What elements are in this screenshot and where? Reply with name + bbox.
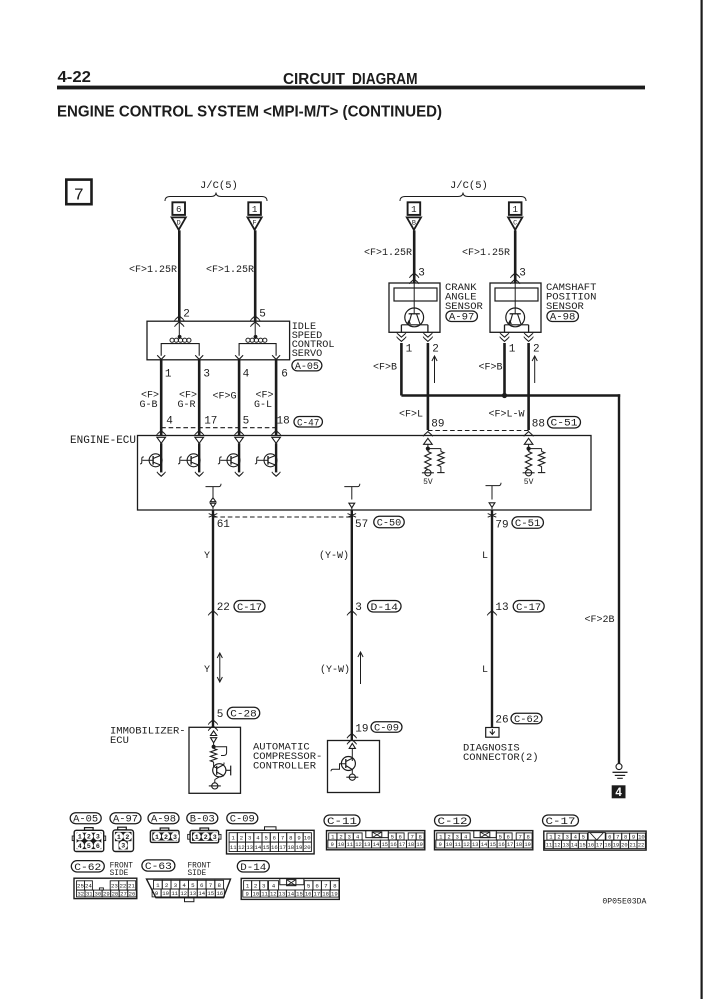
ECU output symbol pin 61 xyxy=(206,484,222,487)
svg-text:6: 6 xyxy=(608,834,611,841)
svg-text:22: 22 xyxy=(119,883,126,890)
compressor ground symbol xyxy=(349,774,355,780)
compressor input terminal xyxy=(349,743,355,748)
svg-text:5: 5 xyxy=(191,882,195,889)
svg-text:18: 18 xyxy=(287,844,294,851)
svg-text:9: 9 xyxy=(297,835,300,842)
svg-text:A-97: A-97 xyxy=(449,313,475,324)
svg-text:89: 89 xyxy=(431,419,444,431)
svg-text:C-28: C-28 xyxy=(230,710,257,721)
svg-text:A-98: A-98 xyxy=(550,313,576,324)
svg-text:5: 5 xyxy=(499,834,502,841)
svg-text:19: 19 xyxy=(416,842,422,848)
connector view A-05 xyxy=(74,830,104,851)
svg-text:2: 2 xyxy=(432,344,439,356)
ECU output symbol pin 57 xyxy=(344,484,360,487)
svg-text:(Y-W): (Y-W) xyxy=(320,664,350,676)
svg-text:4: 4 xyxy=(166,416,173,428)
svg-text:14: 14 xyxy=(571,842,577,848)
connector view C-62 xyxy=(74,878,137,898)
svg-text:C-63: C-63 xyxy=(145,862,172,873)
svg-text:1: 1 xyxy=(439,834,443,841)
svg-text:9: 9 xyxy=(245,891,248,898)
wire (F)G servo pin4 to ECU pin5 xyxy=(238,360,241,436)
svg-text:10: 10 xyxy=(304,835,311,842)
svg-text:2: 2 xyxy=(204,834,208,841)
connector oval C-50 xyxy=(374,516,405,528)
svg-text:CONNECTOR(2): CONNECTOR(2) xyxy=(463,752,539,764)
signal direction arrow up camshaft pin2 xyxy=(534,356,536,383)
svg-text:13: 13 xyxy=(189,890,196,897)
svg-text:25: 25 xyxy=(77,883,84,890)
svg-text:SIDE: SIDE xyxy=(110,870,129,878)
svg-text:15: 15 xyxy=(579,842,585,848)
connector oval A-98 xyxy=(547,311,579,322)
svg-text:32: 32 xyxy=(77,891,84,898)
svg-text:2: 2 xyxy=(557,834,560,841)
svg-text:17: 17 xyxy=(314,891,321,898)
ECU input terminal triangle at x=239.1 xyxy=(235,437,244,443)
svg-text:5: 5 xyxy=(264,835,267,842)
svg-text:3: 3 xyxy=(519,268,526,280)
svg-text:19: 19 xyxy=(296,844,303,851)
connector pin box 1 of J/C(5) B xyxy=(408,202,421,215)
svg-text:A-05: A-05 xyxy=(73,815,98,826)
connector oval label A-97 bottom xyxy=(110,813,141,824)
svg-text:15: 15 xyxy=(263,844,270,851)
double arrow beside Y wire xyxy=(219,653,221,682)
svg-text:<F>1.25R: <F>1.25R xyxy=(364,248,412,259)
svg-text:12: 12 xyxy=(270,891,277,898)
wire Y ECU pin61 to immobilizer xyxy=(212,510,214,727)
svg-text:9: 9 xyxy=(632,834,635,841)
connector oval A-05 xyxy=(292,360,322,371)
signal direction arrow up crank pin2 xyxy=(434,356,436,383)
svg-text:79: 79 xyxy=(495,520,508,532)
svg-text:5: 5 xyxy=(87,843,91,850)
svg-text:26: 26 xyxy=(129,891,136,898)
wire (F)1.25R from J/C C to camshaft sensor pin 3 xyxy=(514,230,517,283)
junction node on ground bus xyxy=(502,393,507,398)
svg-text:14: 14 xyxy=(481,842,487,848)
svg-text:B: B xyxy=(412,220,416,228)
svg-text:4: 4 xyxy=(356,834,360,841)
svg-text:19: 19 xyxy=(331,891,338,898)
svg-text:L: L xyxy=(482,551,488,562)
connector oval label C-17 bottom xyxy=(543,815,579,826)
svg-text:9: 9 xyxy=(439,842,442,848)
svg-text:30: 30 xyxy=(94,891,101,898)
svg-text:D: D xyxy=(177,220,181,228)
svg-text:<F>L-W: <F>L-W xyxy=(489,410,525,421)
svg-text:15: 15 xyxy=(207,890,214,897)
svg-text:31: 31 xyxy=(86,891,93,898)
svg-text:A-97: A-97 xyxy=(113,815,138,826)
svg-text:3: 3 xyxy=(456,834,459,841)
svg-text:11: 11 xyxy=(230,844,237,851)
svg-text:2: 2 xyxy=(164,834,168,841)
svg-text:18: 18 xyxy=(322,891,329,898)
svg-text:7: 7 xyxy=(324,882,328,889)
svg-text:19: 19 xyxy=(613,842,619,848)
junction connector triangle D xyxy=(172,217,186,229)
svg-text:G-L: G-L xyxy=(254,400,272,411)
svg-text:2: 2 xyxy=(87,834,91,841)
svg-text:1: 1 xyxy=(411,204,417,215)
svg-text:3: 3 xyxy=(355,602,362,614)
svg-text:12: 12 xyxy=(238,844,245,851)
svg-text:J/C(5): J/C(5) xyxy=(450,180,488,192)
svg-text:9: 9 xyxy=(155,890,158,897)
immobilizer junction node xyxy=(212,745,216,749)
svg-text:C-17: C-17 xyxy=(516,603,541,614)
svg-text:21: 21 xyxy=(630,842,636,848)
svg-text:4: 4 xyxy=(272,882,276,889)
svg-text:<F>1.25R: <F>1.25R xyxy=(206,265,254,276)
brace right J/C xyxy=(400,193,526,202)
svg-text:11: 11 xyxy=(171,890,178,897)
svg-text:4: 4 xyxy=(78,843,82,850)
svg-text:Y: Y xyxy=(204,665,210,676)
wire (F)1.25R from J/C B to crank sensor pin 3 xyxy=(413,230,416,283)
svg-text:1: 1 xyxy=(509,344,516,356)
svg-text:A-05: A-05 xyxy=(295,362,319,373)
svg-text:27: 27 xyxy=(120,891,127,898)
svg-text:A-98: A-98 xyxy=(151,815,176,826)
brace left J/C xyxy=(165,193,267,202)
svg-text:3: 3 xyxy=(96,834,100,841)
svg-text:4: 4 xyxy=(182,882,186,889)
svg-text:14: 14 xyxy=(287,891,294,898)
wire L ECU pin79 to diagnosis connector xyxy=(491,510,493,728)
connector oval label C-62 bottom xyxy=(71,861,104,872)
immobilizer ground symbol xyxy=(212,783,218,789)
svg-text:17: 17 xyxy=(596,842,602,848)
svg-text:<F>B: <F>B xyxy=(479,363,503,374)
svg-text:Y: Y xyxy=(204,551,210,562)
svg-text:C-50: C-50 xyxy=(377,519,402,530)
svg-text:11: 11 xyxy=(546,842,552,848)
camshaft position sensor internals xyxy=(495,288,538,301)
page edge line xyxy=(701,0,703,999)
svg-text:3: 3 xyxy=(121,843,125,850)
ECU input terminal triangle at x=276.1 xyxy=(272,437,281,443)
connector oval C-51 top xyxy=(548,416,581,428)
svg-text:11: 11 xyxy=(347,842,353,848)
svg-text:17: 17 xyxy=(204,416,217,428)
svg-text:1: 1 xyxy=(117,834,121,841)
connector oval label C-11 bottom xyxy=(324,815,360,826)
ECU input terminal triangle at x=199.2 xyxy=(195,437,204,443)
diagram section number box 7 xyxy=(66,180,91,205)
connector oval label B-03 bottom xyxy=(187,813,218,824)
crank sensor pin 2 xyxy=(424,334,431,337)
svg-text:10: 10 xyxy=(338,842,344,848)
svg-text:13: 13 xyxy=(364,842,370,848)
svg-text:D-14: D-14 xyxy=(371,603,399,614)
svg-text:18: 18 xyxy=(604,842,610,848)
ground bus horizontal wire xyxy=(401,394,620,397)
compressor controller box xyxy=(328,741,380,793)
immobilizer ECU box xyxy=(189,727,241,793)
svg-text:3: 3 xyxy=(262,882,266,889)
ground reference black box 4 xyxy=(612,785,626,798)
svg-text:18: 18 xyxy=(516,842,522,848)
connector view D-14 xyxy=(241,878,339,899)
ECU pull-up network pin 88 xyxy=(524,438,533,444)
svg-text:61: 61 xyxy=(217,519,231,531)
svg-text:23: 23 xyxy=(111,883,118,890)
svg-text:C-09: C-09 xyxy=(374,724,399,735)
svg-text:7: 7 xyxy=(616,834,619,841)
svg-text:(Y-W): (Y-W) xyxy=(319,550,349,562)
svg-text:6: 6 xyxy=(96,843,100,850)
engine ECU box xyxy=(138,436,592,511)
ground bus wire (F)B crank pin1 down xyxy=(400,343,403,396)
ECU pull-up network pin 89 xyxy=(424,438,433,444)
connector oval label A-98 bottom xyxy=(148,813,179,824)
svg-text:26: 26 xyxy=(495,715,508,727)
connector view C-63 xyxy=(147,879,231,898)
connector view C-11 xyxy=(327,831,425,850)
connector oval label D-14 bottom xyxy=(237,861,269,872)
svg-text:6: 6 xyxy=(315,882,319,889)
svg-text:5: 5 xyxy=(259,309,266,321)
svg-text:14: 14 xyxy=(255,844,262,851)
svg-text:<F>1.25R: <F>1.25R xyxy=(129,265,177,276)
C-11 keyway hatched box xyxy=(366,831,389,838)
svg-text:6: 6 xyxy=(398,834,401,841)
svg-text:16: 16 xyxy=(216,890,223,897)
svg-text:22: 22 xyxy=(638,842,644,848)
svg-text:2: 2 xyxy=(240,835,243,842)
svg-text:18: 18 xyxy=(408,842,414,848)
svg-text:19: 19 xyxy=(355,724,368,736)
compressor transistor base lead xyxy=(331,764,346,772)
svg-text:D-14: D-14 xyxy=(240,863,266,874)
svg-text:14: 14 xyxy=(198,890,205,897)
svg-text:16: 16 xyxy=(390,842,396,848)
svg-text:C: C xyxy=(513,220,517,228)
ECU driver transistor at x=276.1 xyxy=(275,443,277,472)
dashed connector line C-50 xyxy=(213,516,352,518)
connector view A-98 xyxy=(150,831,179,843)
svg-text:2: 2 xyxy=(165,882,169,889)
ground symbol (F)2B xyxy=(616,764,622,770)
svg-text:19: 19 xyxy=(524,842,530,848)
svg-text:ECU: ECU xyxy=(110,735,129,747)
svg-text:8: 8 xyxy=(289,835,292,842)
svg-text:15: 15 xyxy=(381,842,387,848)
svg-text:12: 12 xyxy=(355,842,361,848)
dashed connector line C-47 xyxy=(161,427,277,429)
svg-text:CIRCUIT: CIRCUIT xyxy=(283,71,346,88)
camshaft position sensor box A-98 xyxy=(490,283,541,332)
wire (F)L crank pin2 to ECU pin 89 xyxy=(427,343,430,430)
svg-text:CONTROLLER: CONTROLLER xyxy=(253,761,317,773)
C-17 keyway xyxy=(588,833,605,841)
svg-text:4: 4 xyxy=(615,787,622,799)
svg-text:20: 20 xyxy=(621,842,627,848)
svg-text:1: 1 xyxy=(246,882,250,889)
svg-text:13: 13 xyxy=(563,842,569,848)
svg-text:C-17: C-17 xyxy=(237,603,262,614)
svg-text:16: 16 xyxy=(588,842,594,848)
camshaft sensor pin 2 xyxy=(525,334,532,337)
servo coil 2 winding xyxy=(254,321,256,336)
svg-text:12: 12 xyxy=(554,842,560,848)
svg-text:C-09: C-09 xyxy=(230,815,255,826)
wire (F)1.25R from J/C F to servo pin 5 xyxy=(254,230,257,321)
connector oval A-97 xyxy=(446,311,478,322)
svg-text:8: 8 xyxy=(624,834,627,841)
junction connector triangle B xyxy=(407,217,421,229)
svg-text:5V: 5V xyxy=(524,478,534,487)
svg-text:8: 8 xyxy=(333,882,337,889)
connector view C-17 xyxy=(544,831,646,850)
camshaft sensor pin 1 xyxy=(501,334,508,337)
svg-text:6: 6 xyxy=(506,834,509,841)
svg-text:17: 17 xyxy=(399,842,405,848)
svg-text:1: 1 xyxy=(78,834,82,841)
connector oval label C-63 bottom xyxy=(142,860,175,871)
svg-text:<F>G: <F>G xyxy=(213,392,237,403)
header rule xyxy=(57,86,645,90)
svg-text:SERVO: SERVO xyxy=(292,349,323,360)
svg-text:29: 29 xyxy=(103,891,110,898)
svg-text:11: 11 xyxy=(261,891,268,898)
connector pin box 1 of J/C(5) xyxy=(248,202,261,215)
svg-text:5: 5 xyxy=(217,709,224,721)
crank angle sensor box A-97 xyxy=(389,283,440,332)
ECU driver transistor at x=199.2 xyxy=(198,443,200,472)
svg-text:8: 8 xyxy=(418,834,421,841)
svg-text:<F>L: <F>L xyxy=(399,410,423,421)
ECU driver transistor at x=239.1 xyxy=(238,443,240,472)
connector view B-03 xyxy=(190,831,219,843)
svg-text:13: 13 xyxy=(246,844,253,851)
svg-text:6: 6 xyxy=(281,369,288,381)
svg-text:7: 7 xyxy=(74,187,84,206)
svg-text:4: 4 xyxy=(243,369,250,381)
svg-text:6: 6 xyxy=(176,204,182,215)
connector view C-09 xyxy=(227,830,315,854)
connector view A-97 xyxy=(113,830,134,852)
svg-text:17: 17 xyxy=(507,842,513,848)
svg-text:12: 12 xyxy=(463,842,469,848)
svg-text:3: 3 xyxy=(213,834,217,841)
svg-text:5V: 5V xyxy=(423,478,433,487)
svg-text:4: 4 xyxy=(464,834,468,841)
svg-text:16: 16 xyxy=(498,842,504,848)
svg-text:14: 14 xyxy=(373,842,379,848)
ECU input terminal triangle at x=161.2 xyxy=(157,437,166,443)
wire (F)L-W camshaft pin2 to ECU pin 88 xyxy=(527,343,530,430)
servo coil 1 winding xyxy=(178,321,180,336)
dashed connector line C-51 top xyxy=(428,430,529,432)
svg-text:G-B: G-B xyxy=(140,400,158,411)
svg-text:G-R: G-R xyxy=(178,400,196,411)
svg-text:17: 17 xyxy=(279,844,286,851)
svg-text:L: L xyxy=(482,665,488,676)
compressor transistor xyxy=(341,757,355,771)
svg-text:12: 12 xyxy=(180,890,187,897)
svg-text:16: 16 xyxy=(305,891,312,898)
svg-text:10: 10 xyxy=(446,842,452,848)
svg-text:1: 1 xyxy=(156,882,160,889)
svg-text:6: 6 xyxy=(200,882,204,889)
svg-text:13: 13 xyxy=(495,602,508,614)
svg-text:16: 16 xyxy=(271,844,278,851)
svg-text:C-51: C-51 xyxy=(551,419,578,430)
connector oval C-47 xyxy=(294,417,323,428)
svg-text:B-03: B-03 xyxy=(190,815,215,826)
svg-text:13: 13 xyxy=(472,842,478,848)
svg-text:2: 2 xyxy=(183,309,190,321)
svg-text:1: 1 xyxy=(155,834,159,841)
svg-text:7: 7 xyxy=(518,834,521,841)
svg-text:2: 2 xyxy=(533,344,540,356)
svg-text:15: 15 xyxy=(489,842,495,848)
svg-text:8: 8 xyxy=(526,834,529,841)
svg-text:2: 2 xyxy=(125,834,129,841)
svg-text:0P05E03DA: 0P05E03DA xyxy=(602,898,646,907)
ground wire (F)2B down right side xyxy=(618,394,620,763)
svg-text:2: 2 xyxy=(254,882,258,889)
svg-text:10: 10 xyxy=(162,890,169,897)
connector pin box 6 of J/C(5) xyxy=(172,202,185,215)
svg-text:3: 3 xyxy=(418,268,425,280)
svg-text:2: 2 xyxy=(447,834,450,841)
svg-text:J/C(5): J/C(5) xyxy=(200,180,238,192)
immobilizer input terminals xyxy=(211,731,217,736)
svg-text:C-51: C-51 xyxy=(515,519,541,530)
wire (F)G-R servo pin3 to ECU pin17 xyxy=(198,360,201,436)
svg-text:C-62: C-62 xyxy=(514,715,539,726)
svg-text:C-12: C-12 xyxy=(438,817,468,828)
svg-text:3: 3 xyxy=(248,835,251,842)
svg-text:3: 3 xyxy=(174,882,178,889)
svg-text:<F>2B: <F>2B xyxy=(585,615,615,626)
svg-text:ENGINE CONTROL SYSTEM <MPI-M/T: ENGINE CONTROL SYSTEM <MPI-M/T> (CONTINU… xyxy=(57,104,442,121)
svg-text:1: 1 xyxy=(232,835,236,842)
svg-text:5: 5 xyxy=(391,834,394,841)
C-12 keyway hatched box xyxy=(474,831,497,838)
svg-text:<F>1.25R: <F>1.25R xyxy=(462,248,510,259)
D-14 keyway hatched box xyxy=(280,878,304,884)
svg-text:F: F xyxy=(253,220,257,228)
svg-text:11: 11 xyxy=(455,842,461,848)
svg-text:15: 15 xyxy=(296,891,303,898)
junction connector triangle F xyxy=(248,217,262,229)
svg-text:10: 10 xyxy=(253,891,260,898)
svg-text:SIDE: SIDE xyxy=(188,870,207,878)
svg-text:1: 1 xyxy=(512,204,518,215)
crank angle sensor internals xyxy=(394,288,437,301)
svg-text:5: 5 xyxy=(582,834,585,841)
connector oval label C-09 bottom xyxy=(227,813,258,824)
immobilizer branch to other circuit xyxy=(214,747,227,756)
crank sensor pin 1 xyxy=(398,334,405,337)
svg-text:ENGINE-ECU: ENGINE-ECU xyxy=(70,435,136,447)
svg-text:7: 7 xyxy=(410,834,413,841)
svg-text:1: 1 xyxy=(331,834,335,841)
svg-text:7: 7 xyxy=(209,882,213,889)
junction connector triangle C xyxy=(508,217,522,229)
svg-text:28: 28 xyxy=(112,891,119,898)
wire (Y-W) ECU pin57 to compressor controller xyxy=(351,510,353,741)
svg-text:3: 3 xyxy=(348,834,351,841)
